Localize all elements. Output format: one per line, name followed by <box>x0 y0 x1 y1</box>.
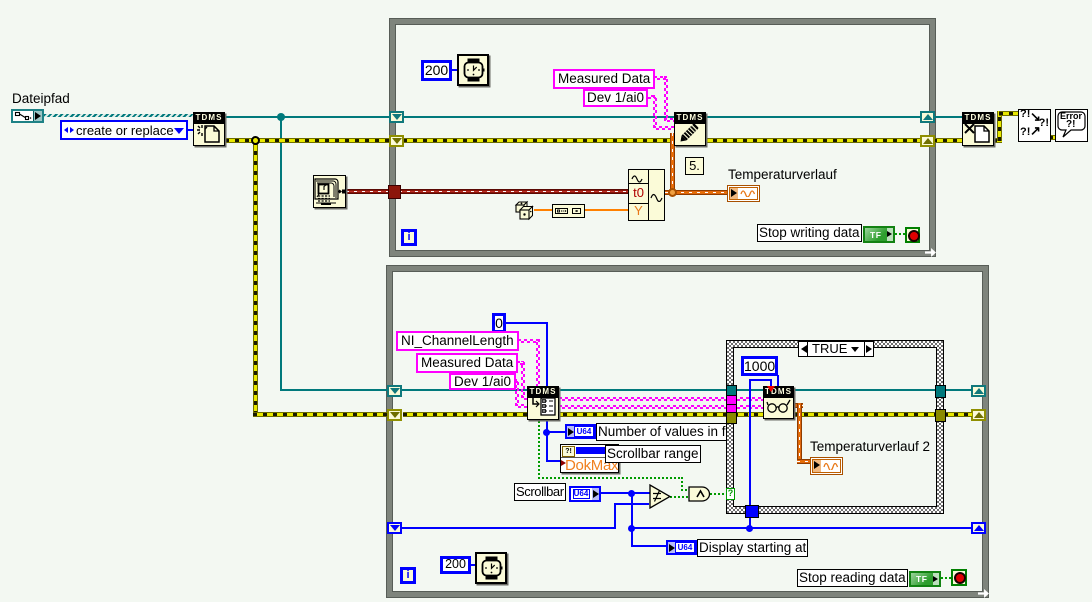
case wires: teal <box>734 389 972 391</box>
case tunnels left: teal, magenta, magenta, olive <box>726 385 737 398</box>
label: Scrollbar <box>514 483 566 501</box>
label: Measured Data 2 <box>416 353 518 373</box>
node: convert to double <box>552 204 585 218</box>
wire: error across loop1 <box>403 138 922 143</box>
wire: string Dev1/ai0 2 <box>513 379 518 383</box>
case tunnels right: teal, olive <box>935 385 946 398</box>
node: AND <box>688 486 712 502</box>
label Temperaturverlauf <box>728 167 837 182</box>
wire: left SR old value <box>402 527 616 529</box>
wire: waveform vertical TDMS Write to junction <box>670 133 675 192</box>
label: Number of values in file (clipped by case) <box>596 423 727 441</box>
terminal: loop condition stop button 2 <box>951 569 967 586</box>
case tunnel: selector ? <box>726 488 735 500</box>
wire: down to property node <box>546 432 548 461</box>
case wire: 1000 blue <box>777 375 779 387</box>
node: random number dice <box>514 200 535 222</box>
shift register left olive <box>389 135 404 147</box>
shift register right blue <box>971 522 986 534</box>
case wire: waveform orange <box>792 403 803 408</box>
shift register right olive <box>920 135 935 147</box>
constant: enum create or replace <box>60 120 188 140</box>
wire: 0 constant blue <box>506 322 548 324</box>
node: Build Waveform <box>628 169 665 221</box>
wire: 200 to Wait <box>450 69 459 71</box>
iteration terminal i 2 <box>400 567 416 584</box>
constant 5. <box>685 157 704 175</box>
indicator: U64 display starting at <box>666 540 697 555</box>
wire: waveform Build Waveform out to chart <box>665 190 728 195</box>
node: TDMS Open U1 <box>193 112 225 146</box>
wire: AND out to case selector <box>710 493 726 495</box>
node: property node DokMax <box>560 444 619 473</box>
node: blue junction bus <box>628 525 635 532</box>
shift register left teal 2 <box>387 385 402 397</box>
constant 200 <box>421 60 452 81</box>
label: Stop reading data <box>797 569 908 587</box>
wire: case tunnel vertical <box>749 508 751 529</box>
wire: string Measured Data 2 <box>517 361 524 365</box>
case wire: offset blue <box>749 379 751 509</box>
node: Get Date/Time In Seconds <box>313 175 346 208</box>
coercion dot on TDMS Read <box>767 386 775 392</box>
node: waveform junction <box>668 188 677 197</box>
constant 0 <box>492 313 506 333</box>
case wires: error <box>734 412 972 417</box>
node: teal junction <box>277 113 285 121</box>
node: TDMS Write <box>674 112 706 146</box>
constant 1000 <box>741 356 778 376</box>
node: simple error handler <box>1055 109 1088 142</box>
wire: TDMS refnum teal, TDMS Open to loop1 <box>225 116 390 118</box>
label: Temperaturverlauf 2 <box>810 439 930 454</box>
case selector label <box>798 341 874 357</box>
label: Dev1/ai0 <box>583 89 648 107</box>
wire: enum to TDMS Open (blue) <box>186 129 193 131</box>
wire: teal refnum across loop2 <box>402 389 727 391</box>
shift register right teal 2 <box>971 385 986 397</box>
shift register left teal <box>389 111 404 123</box>
wire: string Dev1/ai0 to TDMS Write <box>645 95 656 99</box>
case wires: strings <box>734 397 763 401</box>
wire: merge errors to error handler <box>1049 135 1056 140</box>
wire: teal into loop2 left SR <box>280 389 390 391</box>
shift register left blue <box>387 522 402 534</box>
loop1 corner arrow <box>925 248 936 257</box>
node: error junction <box>251 136 260 145</box>
wire: timestamp to Build Waveform t0 <box>399 189 630 194</box>
label: NI_ChannelLength <box>396 331 519 351</box>
node: TDMS Get Properties <box>527 386 559 420</box>
iteration terminal i <box>401 229 417 246</box>
indicator: U64 number of values <box>565 424 596 439</box>
wire: error TDMS Close to merge errors <box>993 138 1002 143</box>
label: Dev1/ai0 2 <box>449 373 516 390</box>
wire: scrollbar to not-equal <box>601 492 650 494</box>
wire: scrollbar branch down <box>631 492 633 528</box>
node: not equal <box>649 484 671 509</box>
wire: teal refnum across loop1 <box>403 116 922 118</box>
shift register right olive 2 <box>971 409 986 421</box>
node: Wait (ms) 2 <box>475 552 507 584</box>
wire: error into loop2 left SR <box>253 412 390 417</box>
node: TDMS Read <box>763 386 794 419</box>
control: U64 scrollbar <box>569 486 601 502</box>
case tunnel bottom: blue <box>745 505 759 518</box>
wire: blue bus to right SR <box>631 527 972 529</box>
wire: 200 to wait 2 <box>469 564 475 566</box>
node: Wait (ms) <box>457 54 489 86</box>
wire: not-equal out to AND <box>670 496 688 498</box>
wire: error loop1 to TDMS Close <box>933 138 963 143</box>
wire: error across loop2 <box>403 412 727 417</box>
wire: bus down to Display starting at <box>631 527 633 547</box>
node: blue junction <box>543 429 550 436</box>
wire: boolean from TDMS props down <box>538 419 540 479</box>
shift register left olive 2 <box>387 409 402 421</box>
constant 200 (2) <box>440 556 471 574</box>
wire: strings group/channel to case <box>559 397 727 401</box>
while loop 2 (reader) <box>387 266 988 597</box>
wire: path from Dateipfad to TDMS Open (teal squiggle) <box>44 114 193 117</box>
wire: string Measured Data to TDMS Write <box>648 76 667 80</box>
terminal: waveform chart Temperaturverlauf 2 <box>810 457 843 475</box>
control: file path Dateipfad <box>11 109 44 123</box>
while loop 1 (writer) <box>390 19 935 256</box>
terminal: waveform chart Temperaturverlauf <box>727 185 760 202</box>
wire: boolean stop reading <box>941 577 951 579</box>
terminal: stop boolean TF 2 <box>909 571 941 587</box>
terminal: stop boolean TF <box>863 226 895 243</box>
node: TDMS Close <box>962 112 994 146</box>
node: blue junction scrollbar <box>628 490 635 497</box>
wire: boolean stop to condition terminal <box>895 233 906 235</box>
wire: error branch vertical down to loop2 <box>253 138 258 415</box>
terminal: loop condition stop button <box>905 227 920 243</box>
wire: dice to converter <box>534 209 553 211</box>
wire: teal loop1 to TDMS Close <box>933 116 963 118</box>
label Dateipfad <box>12 91 70 106</box>
shift register right teal <box>920 111 935 123</box>
label: Measured Data <box>553 69 655 89</box>
label: Scrollbar range <box>605 445 701 463</box>
wire: string NI_ChannelLength <box>518 339 539 343</box>
wire: timestamp into loop1 <box>346 189 391 194</box>
tunnel: timestamp (dark red) <box>388 185 401 199</box>
node: merge errors <box>1018 109 1051 142</box>
loop2 corner arrow <box>978 589 989 598</box>
label: Display starting at <box>697 539 808 557</box>
wire: to number of values U64 <box>546 431 565 433</box>
wire: converter to Build Waveform Y <box>582 209 630 211</box>
case structure TRUE <box>726 340 944 514</box>
label: Stop writing data <box>757 224 862 242</box>
wire: teal branch vertical down to loop2 <box>280 116 282 391</box>
wire: error out of TDMS Open to loop1 <box>225 138 390 143</box>
